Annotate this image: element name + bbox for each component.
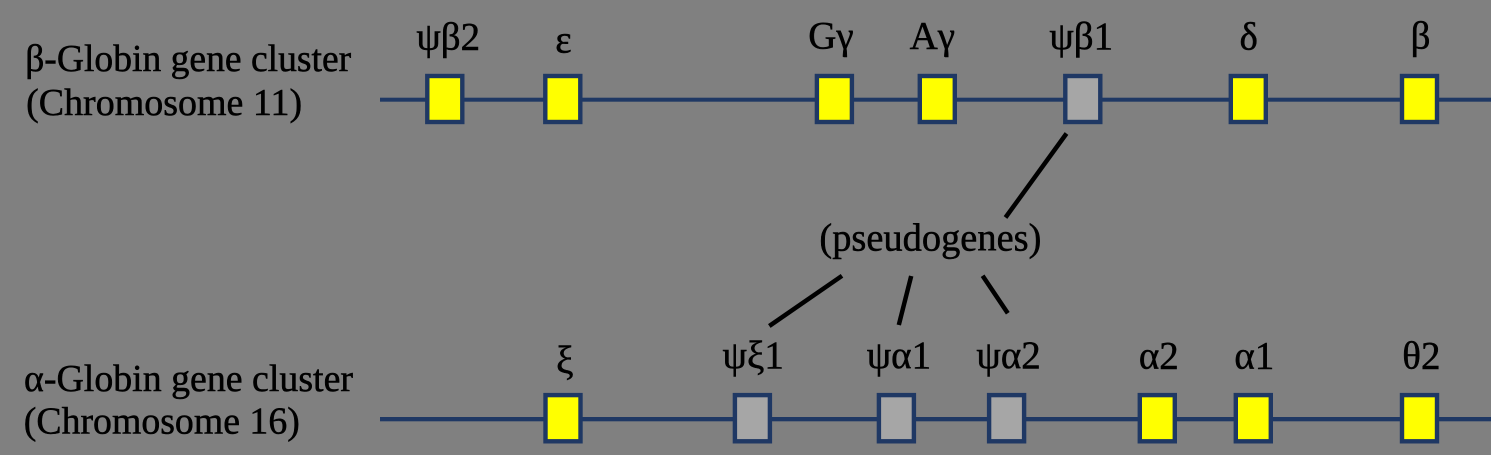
gene box psi-beta-2 bbox=[427, 76, 462, 122]
wire top chromosome line bbox=[380, 98, 1491, 102]
gene box delta bbox=[1231, 76, 1266, 122]
gene box theta-2 bbox=[1402, 395, 1437, 441]
gene box epsilon bbox=[545, 76, 580, 122]
svg-text:(Chromosome 16): (Chromosome 16) bbox=[24, 401, 300, 443]
svg-text:α2: α2 bbox=[1139, 335, 1179, 378]
gene box G-gamma bbox=[817, 76, 852, 122]
svg-text:β-Globin gene cluster: β-Globin gene cluster bbox=[25, 38, 351, 80]
pointer line from pseudogenes to psi-alpha-2 bbox=[983, 276, 1008, 313]
pointer line from pseudogenes to psi-xi-1 bbox=[769, 276, 842, 326]
svg-text:ψξ1: ψξ1 bbox=[723, 334, 784, 377]
svg-text:(pseudogenes): (pseudogenes) bbox=[819, 217, 1041, 260]
pointer line from psi-beta-1 to pseudogenes text bbox=[1006, 134, 1067, 218]
svg-text:(Chromosome 11): (Chromosome 11) bbox=[26, 82, 302, 124]
svg-text:ψα2: ψα2 bbox=[976, 334, 1040, 377]
svg-text:ψα1: ψα1 bbox=[867, 334, 931, 377]
gene box psi-xi-1 pseudogene bbox=[735, 395, 770, 441]
svg-text:ψβ2: ψβ2 bbox=[416, 16, 480, 59]
gene box alpha-1 bbox=[1236, 395, 1271, 441]
gene box psi-beta-1 pseudogene bbox=[1065, 76, 1100, 122]
svg-text:θ2: θ2 bbox=[1402, 335, 1440, 378]
svg-text:ξ: ξ bbox=[556, 339, 573, 382]
gene box psi-alpha-2 pseudogene bbox=[989, 395, 1024, 441]
gene box alpha-2 bbox=[1140, 395, 1175, 441]
svg-text:β: β bbox=[1411, 15, 1431, 58]
svg-text:ε: ε bbox=[555, 19, 571, 62]
gene box A-gamma bbox=[920, 76, 955, 122]
svg-text:ψβ1: ψβ1 bbox=[1049, 15, 1113, 58]
pointer line from pseudogenes to psi-alpha-1 bbox=[899, 276, 911, 325]
gene box psi-alpha-1 pseudogene bbox=[879, 395, 914, 441]
gene box xi bbox=[546, 395, 581, 441]
wire bottom chromosome line bbox=[380, 417, 1491, 421]
svg-text:α-Globin gene cluster: α-Globin gene cluster bbox=[24, 358, 353, 400]
svg-text:α1: α1 bbox=[1234, 335, 1274, 378]
gene box beta bbox=[1402, 76, 1437, 122]
svg-text:Gγ: Gγ bbox=[808, 14, 853, 57]
svg-text:Aγ: Aγ bbox=[910, 15, 955, 58]
svg-text:δ: δ bbox=[1240, 16, 1258, 59]
